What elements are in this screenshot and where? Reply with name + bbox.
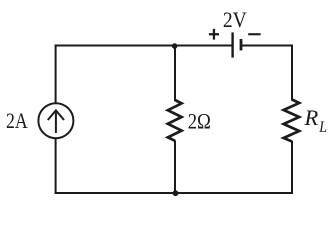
wire middle branch upper (174, 45, 176, 102)
current source I1 2A circle (38, 103, 73, 138)
wire right branch upper (291, 45, 293, 101)
wire bottom (55, 192, 293, 194)
wire left branch (55, 45, 57, 195)
resistor R1 2ohm zigzag (168, 100, 182, 141)
resistor RL zigzag (284, 100, 300, 142)
battery V1 short plate (240, 39, 243, 50)
battery plus sign (209, 29, 219, 40)
svg-text:L: L (318, 119, 327, 136)
wire middle branch lower (174, 141, 176, 194)
current source I1 arrow shaft (55, 111, 57, 132)
svg-text:R: R (304, 105, 319, 130)
svg-text:2V: 2V (223, 7, 247, 33)
wire top right segment (241, 45, 293, 47)
battery minus sign (248, 33, 260, 35)
wire right branch lower (291, 141, 293, 194)
svg-text:2Ω: 2Ω (188, 110, 211, 134)
node dot top junction (172, 43, 178, 49)
svg-text:2A: 2A (6, 109, 28, 133)
battery V1 long plate (231, 32, 233, 57)
node dot bottom junction (173, 190, 179, 196)
wire top left segment (55, 45, 233, 47)
current source I1 arrow head (48, 110, 64, 120)
